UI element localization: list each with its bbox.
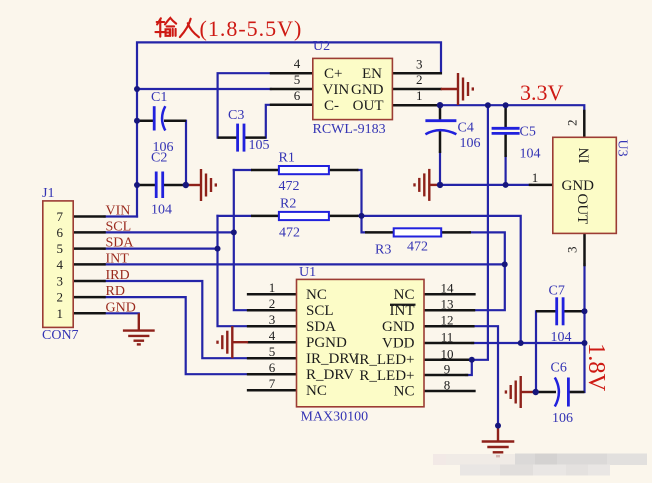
pin stub U1 pin10: [424, 359, 471, 362]
capacitor C5 104: [492, 105, 541, 161]
svg-text:1: 1: [416, 88, 423, 103]
svg-text:C2: C2: [151, 151, 167, 166]
wire VIN from J1 pin7: [105, 215, 138, 217]
svg-text:NC: NC: [306, 383, 327, 399]
wire SCL from J1 pin6: [105, 231, 236, 233]
junction C1 left: [134, 118, 140, 124]
wire RD from J1 pin2 to U1 pin6: [105, 297, 250, 374]
pin stub J1 pin3: [73, 280, 104, 283]
svg-text:1.8V: 1.8V: [583, 343, 610, 392]
resistor R3 472: [365, 228, 471, 257]
ground sideways at U1 pin4 PGND: [218, 326, 249, 358]
pin stub U2 pin3: [392, 72, 440, 75]
svg-text:5: 5: [57, 241, 64, 256]
svg-text:11: 11: [441, 330, 454, 345]
wire ground rail under C4 C5 to U3 pin1: [440, 184, 531, 186]
svg-text:2: 2: [269, 296, 276, 311]
svg-text:VIN: VIN: [106, 204, 131, 219]
wire SDA vertical through R2 left to U1 pin3: [218, 216, 250, 326]
wire 3.3V vertical to LED pins: [472, 105, 488, 360]
capacitor C1 polarized 106: [137, 90, 186, 155]
svg-text:6: 6: [294, 88, 301, 103]
svg-text:INT: INT: [106, 251, 130, 266]
capacitor C4 polarized 106: [425, 105, 480, 153]
svg-text:7: 7: [57, 209, 64, 224]
svg-text:R_LED+: R_LED+: [359, 368, 414, 384]
svg-text:MAX30100: MAX30100: [301, 410, 369, 425]
pin stub U1 pin6: [248, 373, 296, 376]
pin stub U1 pin11: [424, 342, 473, 345]
svg-text:NC: NC: [306, 287, 327, 303]
wire C1 right vertical: [185, 121, 187, 185]
svg-text:GND: GND: [562, 178, 595, 194]
wire C3 right vertical to U2 pin6: [266, 105, 271, 138]
wire R2 left lead link: [218, 215, 252, 217]
pin stub J1 pin2: [73, 296, 104, 299]
IC U1 MAX30100: [269, 265, 454, 425]
svg-text:3: 3: [269, 312, 276, 327]
svg-text:105: 105: [249, 138, 270, 153]
wire node X rail from R2 right to VDD rail: [358, 216, 521, 343]
svg-text:C4: C4: [458, 121, 474, 136]
junction SCL R1: [231, 229, 237, 235]
svg-text:13: 13: [441, 297, 454, 312]
junction U2 OUT C4: [437, 102, 443, 108]
svg-text:SCL: SCL: [306, 303, 334, 319]
svg-text:RCWL-9183: RCWL-9183: [313, 122, 386, 137]
svg-text:C7: C7: [549, 284, 565, 299]
wire U1 pin12 GND down to earth: [472, 326, 498, 425]
capacitor C7 104: [536, 284, 585, 346]
pin stub U1 pin9: [424, 374, 467, 377]
svg-text:6: 6: [57, 225, 64, 240]
ground sideways at C2: [186, 169, 216, 201]
pin stub U1 pin1: [248, 293, 296, 296]
svg-text:J1: J1: [42, 186, 54, 201]
svg-text:3: 3: [57, 274, 64, 289]
svg-text:(1.8-5.5V): (1.8-5.5V): [200, 16, 303, 41]
wire C3 left vertical to U2 pin4: [218, 73, 271, 137]
wire VIN rail to U2 pin5: [137, 88, 271, 90]
junction INT R3: [502, 261, 508, 267]
pin stub U1 pin5: [248, 357, 296, 360]
pin stub U2 pin2: [392, 88, 440, 91]
ground sideways at U2 pin2: [441, 73, 473, 105]
svg-text:4: 4: [57, 257, 64, 272]
svg-text:1: 1: [269, 280, 276, 295]
pin stub U3 pin2: [583, 111, 586, 137]
junction gnd rail C4: [437, 182, 443, 188]
pin stub J1 pin5: [73, 247, 104, 250]
svg-text:VIN: VIN: [323, 82, 350, 98]
wire C7 left vertical down to C6 left: [535, 311, 537, 392]
junction U1 pin10 pin9: [469, 357, 475, 363]
svg-text:472: 472: [279, 179, 300, 194]
svg-text:SDA: SDA: [306, 319, 336, 335]
regulator U2 RCWL-9183: [294, 39, 423, 137]
pin stub U1 pin4: [248, 341, 296, 344]
svg-text:3: 3: [416, 56, 423, 71]
power title input 1.8-5.5V: [155, 16, 302, 41]
svg-text:C6: C6: [551, 361, 567, 376]
svg-text:R1: R1: [279, 151, 295, 166]
svg-text:8: 8: [444, 378, 451, 393]
svg-text:4: 4: [294, 56, 301, 71]
svg-text:EN: EN: [362, 66, 382, 82]
svg-text:R2: R2: [280, 197, 296, 212]
svg-text:2: 2: [565, 120, 580, 127]
wire U2 OUT 3.3V rail to U3 pin2: [440, 105, 584, 112]
junction C2 right ground: [183, 182, 189, 188]
svg-text:2: 2: [57, 290, 64, 305]
pin stub U3 pin1: [530, 184, 553, 187]
svg-text:RD: RD: [106, 284, 125, 299]
svg-text:NC: NC: [394, 384, 415, 400]
svg-text:C-: C-: [324, 98, 339, 114]
svg-text:1: 1: [57, 306, 64, 321]
svg-text:VDD: VDD: [382, 336, 415, 352]
svg-text:IN: IN: [577, 148, 593, 164]
wire input top rail from C1/C2 column to U2 EN: [137, 42, 441, 216]
wire C4 bottom link: [439, 152, 441, 185]
pin stub U2 pin5: [271, 88, 313, 91]
pin stub U2 pin6: [271, 104, 313, 107]
junction node X R2 row: [359, 213, 365, 219]
svg-text:OUT: OUT: [574, 194, 590, 225]
svg-text:2: 2: [416, 72, 423, 87]
svg-text:C5: C5: [520, 125, 536, 140]
svg-text:472: 472: [279, 226, 300, 241]
pin stub U1 pin3: [248, 325, 296, 328]
junction C7 right 1.8V: [582, 308, 588, 314]
svg-text:C+: C+: [324, 66, 342, 82]
capacitor C6 polarized 106: [536, 361, 585, 427]
junction rail LED vertical: [485, 102, 491, 108]
pin stub U3 pin3: [583, 233, 586, 265]
ground sideways at C6: [506, 376, 536, 408]
svg-text:14: 14: [441, 281, 455, 296]
svg-text:GND: GND: [382, 319, 415, 335]
junction C2 left: [134, 182, 140, 188]
svg-text:5: 5: [269, 344, 276, 359]
pin stub J1 pin4: [73, 263, 104, 266]
pin stub U1 pin13: [424, 309, 474, 312]
wire IRD from J1 pin3 to U1 pin5: [105, 281, 250, 358]
svg-text:106: 106: [460, 136, 481, 151]
pin stub J1 pin1: [73, 312, 104, 315]
junction SDA R2: [215, 246, 221, 252]
junction C6 left gnd: [533, 389, 539, 395]
resistor R1 472: [251, 151, 359, 195]
svg-text:GND: GND: [106, 300, 136, 315]
svg-text:NC: NC: [394, 287, 415, 303]
ground sideways at C4 rail: [415, 169, 441, 201]
svg-text:CON7: CON7: [42, 328, 79, 343]
junction node X VDD rail: [518, 340, 524, 346]
svg-text:PGND: PGND: [306, 335, 347, 351]
pin stub U1 pin14: [424, 293, 474, 296]
pin stub J1 pin7: [73, 215, 104, 218]
wire GND from J1 pin1: [105, 312, 139, 314]
junction VIN rail: [134, 86, 140, 92]
wire C5 bottom link: [505, 156, 507, 185]
wire U1 pin10 pin9 tie: [466, 360, 472, 375]
pin stub U1 pin8: [424, 390, 474, 393]
svg-text:SCL: SCL: [106, 219, 132, 234]
svg-text:472: 472: [407, 240, 428, 255]
pin stub J1 pin6: [73, 231, 104, 234]
capacitor C3 105: [218, 108, 270, 153]
svg-text:104: 104: [151, 203, 172, 218]
pin stub U1 pin2: [248, 309, 296, 312]
ground earth below J1: [123, 313, 155, 344]
svg-text:106: 106: [552, 411, 573, 426]
svg-text:R_DRV: R_DRV: [306, 367, 354, 383]
wire R3 right to INT junction down to U1 pin13: [470, 232, 505, 310]
svg-text:U2: U2: [313, 39, 330, 54]
svg-text:5: 5: [294, 72, 301, 87]
wire SDA from J1 pin5: [105, 248, 220, 250]
wire INT row from J1 pin4 to R3 junction: [105, 263, 505, 265]
svg-text:U3: U3: [614, 140, 629, 157]
svg-text:1: 1: [532, 170, 539, 185]
svg-text:10: 10: [441, 346, 454, 361]
svg-text:SDA: SDA: [106, 236, 135, 251]
svg-text:104: 104: [551, 330, 572, 345]
junction gnd rail C5: [503, 182, 509, 188]
svg-text:7: 7: [269, 376, 276, 391]
svg-text:IR_LED+: IR_LED+: [354, 352, 414, 368]
regulator U3: [532, 120, 630, 254]
svg-text:GND: GND: [351, 82, 384, 98]
ground earth at bottom center: [482, 426, 515, 457]
connector J1 CON7: [42, 186, 79, 343]
junction rail C5: [503, 102, 509, 108]
svg-text:9: 9: [444, 362, 451, 377]
svg-text:C1: C1: [151, 90, 167, 105]
svg-text:OUT: OUT: [353, 98, 384, 114]
wire R1 right to node X vertical down to R3: [358, 170, 366, 232]
watermark blocks bottom right: [433, 454, 647, 476]
svg-text:3.3V: 3.3V: [520, 80, 564, 105]
wire R1 left lead link: [234, 169, 251, 171]
svg-text:6: 6: [269, 360, 276, 375]
pin stub U1 pin12: [424, 325, 473, 328]
resistor R2 472: [251, 197, 359, 241]
svg-text:12: 12: [441, 313, 454, 328]
svg-text:3: 3: [565, 247, 580, 254]
junction GND earth stem: [495, 423, 501, 429]
wire SCL vertical through R1 left to U1 pin2: [234, 170, 249, 310]
svg-text:U1: U1: [299, 265, 316, 280]
wire VDD rail U1 pin11 to 1.8V vertical: [472, 342, 585, 344]
svg-text:R3: R3: [375, 243, 391, 258]
junction VDD rail 1.8V: [582, 340, 588, 346]
pin stub U2 pin1: [392, 104, 440, 107]
svg-text:IR_DRV: IR_DRV: [306, 351, 359, 367]
svg-text:IRD: IRD: [106, 268, 130, 283]
svg-text:4: 4: [269, 328, 276, 343]
svg-text:C3: C3: [228, 108, 244, 123]
capacitor C2 104: [137, 151, 186, 218]
svg-text:104: 104: [520, 147, 541, 162]
pin stub U2 pin4: [271, 72, 313, 75]
wire 1.8V vertical from U3 pin3 to C6: [570, 264, 585, 392]
pin stub U1 pin7: [248, 389, 296, 392]
